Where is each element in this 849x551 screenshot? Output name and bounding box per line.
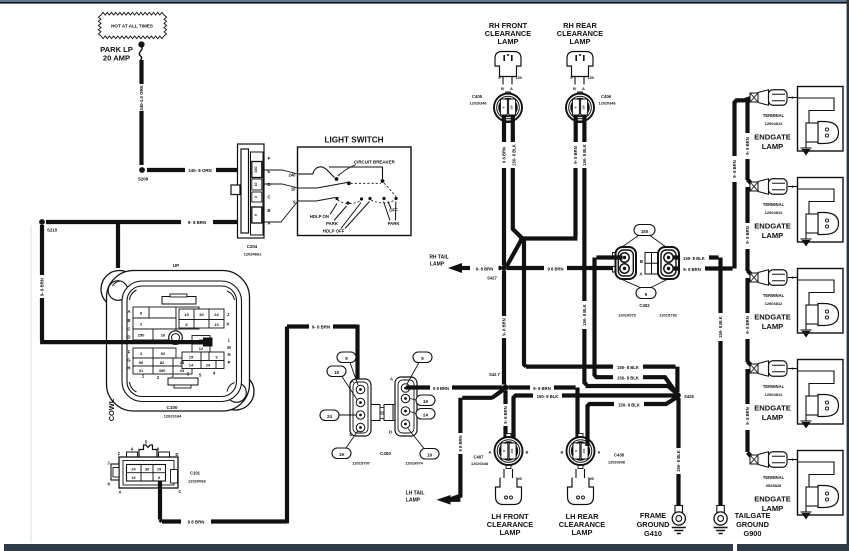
svg-text:30: 30 [199, 312, 204, 317]
svg-text:N: N [227, 352, 230, 357]
wire branch down to C100 [116, 224, 120, 268]
callout 19 [332, 448, 351, 459]
lamp bulb C438 (LH rear) [568, 478, 594, 505]
svg-text:S42 7: S42 7 [489, 372, 501, 377]
svg-text:ENDGATE: ENDGATE [754, 222, 791, 231]
wire to C438 [554, 388, 578, 447]
callout 24 [320, 410, 339, 421]
endgate lamp box 5 [798, 451, 844, 516]
endgate lamp 2 ground [805, 233, 807, 239]
C400 right pins A B C D [401, 384, 410, 429]
terminal 3 spade [750, 270, 787, 286]
svg-text:9: 9 [254, 214, 258, 216]
svg-text:B: B [501, 86, 504, 91]
svg-text:18: 18 [334, 370, 339, 375]
endgate lamp box 2 [798, 178, 844, 243]
svg-text:150- 8 BLK: 150- 8 BLK [582, 144, 587, 166]
wire stub to terminal [748, 362, 754, 369]
svg-text:LAMP: LAMP [572, 528, 593, 537]
wire [503, 426, 507, 446]
connector C400 left half [350, 379, 393, 436]
svg-text:12020066: 12020066 [188, 479, 207, 484]
svg-text:C402: C402 [639, 303, 650, 308]
svg-text:150- 8 BLK: 150- 8 BLK [617, 375, 639, 380]
svg-text:24: 24 [327, 414, 332, 419]
svg-text:D: D [176, 452, 179, 457]
svg-text:150: 150 [641, 229, 649, 234]
svg-text:150- 8 BLK: 150- 8 BLK [617, 365, 639, 370]
callout 19 right [416, 395, 435, 406]
svg-text:14: 14 [189, 363, 194, 368]
svg-text:C405: C405 [472, 94, 483, 99]
svg-text:LH TAIL: LH TAIL [406, 491, 425, 497]
svg-text:0525828: 0525828 [766, 483, 782, 488]
svg-text:9: 9 [792, 185, 794, 189]
terminal 2 spade [750, 179, 787, 195]
svg-text:31: 31 [139, 368, 144, 373]
svg-text:A: A [127, 309, 130, 314]
fuse element [139, 42, 144, 60]
svg-text:9: 9 [792, 96, 794, 100]
terminal 1 wire to lamp box [788, 97, 798, 99]
svg-text:LAMP: LAMP [762, 504, 784, 513]
svg-text:15: 15 [189, 355, 194, 360]
svg-text:82: 82 [160, 360, 165, 365]
svg-text:9 8 BRN: 9 8 BRN [547, 266, 563, 271]
lamp bulb C406 (RH rear) [567, 52, 593, 77]
right border line [847, 0, 849, 551]
svg-text:TERMINAL: TERMINAL [763, 293, 785, 298]
svg-text:9: 9 [570, 76, 572, 80]
svg-text:12034661: 12034661 [244, 252, 263, 257]
wire branch 5 to S425 [644, 398, 677, 405]
svg-text:29: 29 [206, 363, 211, 368]
callout 9 [337, 352, 356, 363]
wire S208 to C204 pin E [147, 168, 185, 172]
C100 corner arc details [130, 290, 235, 392]
svg-text:F: F [268, 156, 271, 161]
svg-text:A: A [582, 86, 585, 91]
C100 top slot [162, 297, 196, 305]
endgate lamp 3 bulb [806, 304, 839, 326]
lamp leads [503, 77, 512, 85]
svg-text:9: 9 [792, 458, 794, 462]
svg-text:2: 2 [254, 196, 258, 198]
C100 grid upper-left [133, 307, 199, 340]
wire RH front BRN down [502, 116, 506, 143]
C402 middle block [645, 253, 658, 275]
wire S427 down [502, 271, 506, 316]
svg-text:C400: C400 [380, 451, 391, 456]
connector C400 right half [389, 377, 417, 436]
TAILGATE GROUND G900 label [735, 511, 771, 538]
C101 pin letters [107, 440, 181, 495]
terminal 5 spade [750, 452, 787, 468]
connector circle C406 (RH rear) [566, 92, 594, 123]
svg-text:12015792: 12015792 [659, 313, 678, 318]
connector circle C407 (LH front) [495, 434, 523, 469]
wire S210 down [40, 225, 44, 275]
svg-text:C407: C407 [473, 455, 484, 460]
terminal 3 wire to lamp box [788, 277, 798, 279]
switch label leaders [330, 202, 396, 229]
wire branch 4 to S425 [562, 393, 675, 397]
svg-text:A: A [119, 490, 122, 495]
endgate lamp 2 bulb [806, 213, 839, 235]
svg-text:12020348: 12020348 [599, 102, 616, 106]
svg-text:9- 8 BRN: 9- 8 BRN [745, 226, 750, 243]
svg-text:LAMP: LAMP [498, 37, 519, 46]
svg-text:24: 24 [214, 312, 219, 317]
wire RH front BLK down [511, 116, 515, 143]
svg-text:TERMINAL: TERMINAL [763, 384, 785, 389]
svg-text:L: L [228, 338, 231, 343]
wire bottom run right [211, 327, 309, 524]
tailgate ground G900 eyelet [714, 506, 727, 526]
wire stub to terminal [748, 453, 754, 460]
svg-text:K: K [108, 482, 111, 487]
svg-text:9: 9 [792, 367, 794, 371]
wire BLK jog [513, 168, 526, 367]
callout 150 [634, 225, 655, 236]
wire 240 ORN fuse down [139, 60, 143, 84]
wire terminal square in C100 [203, 338, 213, 347]
svg-text:PARK: PARK [326, 221, 339, 226]
callout 9 right [413, 352, 432, 363]
svg-text:CIRCUIT BREAKER: CIRCUIT BREAKER [354, 160, 396, 165]
RH FRONT CLEARANCE LAMP title [485, 21, 531, 46]
terminal 5 wire to lamp box [788, 459, 798, 461]
svg-text:12020348: 12020348 [470, 102, 487, 106]
svg-text:S210: S210 [47, 228, 58, 233]
wire [216, 168, 250, 172]
svg-text:G410: G410 [644, 529, 662, 538]
LH REAR CLEARANCE LAMP title [559, 512, 605, 537]
C100 cell numbers [138, 311, 220, 374]
LH tail lamp arrow [437, 495, 451, 505]
wire [139, 111, 143, 165]
svg-text:240-1.0 ORN: 240-1.0 ORN [139, 85, 144, 110]
C100 grid upper-right [179, 309, 224, 328]
svg-text:12020164: 12020164 [164, 414, 183, 419]
svg-text:C101: C101 [190, 471, 201, 476]
svg-text:9- 8 BRN: 9- 8 BRN [745, 407, 750, 424]
svg-text:10: 10 [254, 183, 258, 187]
svg-text:ENDGATE: ENDGATE [754, 404, 791, 413]
endgate lamp box 3 [798, 269, 844, 334]
C100 bottom slot [168, 378, 198, 385]
svg-text:12020348: 12020348 [471, 462, 488, 466]
svg-text:92: 92 [161, 351, 166, 356]
endgate lamp 3 internal wiring [798, 280, 835, 305]
svg-text:9 8 BRN: 9 8 BRN [502, 147, 507, 163]
node S427 lower [503, 385, 509, 391]
connector circle C438 (LH rear) [567, 434, 595, 469]
svg-text:12004812: 12004812 [765, 121, 784, 126]
svg-text:9- 8 BRN: 9- 8 BRN [503, 406, 508, 423]
svg-text:150: 150 [582, 448, 586, 453]
endgate lamp 1 internal wiring [798, 98, 835, 123]
wire S427 lower to LH tail [449, 390, 504, 500]
node S427 upper [501, 265, 507, 271]
svg-text:9- 8 BRN: 9- 8 BRN [745, 137, 750, 154]
svg-text:LAMP: LAMP [406, 498, 421, 504]
wire C400 pin A to S427 lower [406, 385, 430, 389]
svg-text:G900: G900 [743, 529, 761, 538]
svg-text:9 8 BRN: 9 8 BRN [433, 386, 449, 391]
FRAME GROUND G410 label [637, 511, 671, 538]
endgate lamp 1 ground [805, 142, 807, 148]
wire [452, 385, 503, 389]
light switch box [298, 147, 412, 236]
svg-text:23: 23 [180, 360, 185, 365]
wire C407 BLK up and right (S425 branch 4) [514, 396, 534, 447]
svg-text:9- 8 BRN: 9- 8 BRN [683, 267, 700, 272]
svg-text:150: 150 [516, 76, 522, 80]
svg-text:9- 8 BRN: 9- 8 BRN [745, 316, 750, 333]
wire S210 to C204 pin A [46, 220, 181, 224]
svg-text:ENDGATE: ENDGATE [754, 313, 791, 322]
C204 pin letters F E D C B A [267, 156, 271, 226]
svg-text:LIGHT SWITCH: LIGHT SWITCH [324, 136, 383, 145]
svg-text:9- 8 BRN: 9- 8 BRN [502, 318, 507, 335]
svg-text:33: 33 [180, 368, 185, 373]
svg-text:COWL: COWL [107, 398, 116, 421]
svg-text:FRAME: FRAME [640, 511, 666, 520]
svg-text:HOT AT ALL TIMES: HOT AT ALL TIMES [111, 24, 153, 29]
circuit breaker leader [338, 165, 356, 177]
svg-text:TERMINAL: TERMINAL [763, 475, 785, 480]
wire C402 right BLK [674, 255, 680, 259]
C100 grid lower-left [133, 348, 192, 374]
bulkhead connector C100 [101, 271, 254, 412]
svg-text:J: J [107, 461, 109, 466]
svg-text:12015797: 12015797 [352, 461, 371, 466]
svg-text:12004812: 12004812 [765, 210, 784, 215]
wire to C400 pin A [333, 325, 358, 386]
wire S210 down into C100 [40, 298, 204, 342]
svg-text:A: A [390, 377, 393, 382]
top border bar [0, 0, 849, 2]
LH FRONT CLEARANCE LAMP title [487, 512, 533, 537]
bottom border bar right [737, 544, 849, 551]
ground symbol G410 [672, 528, 686, 534]
svg-text:LAMP: LAMP [762, 322, 784, 331]
wire S427 lower down to C407 [503, 391, 507, 405]
svg-text:LAMP: LAMP [762, 142, 784, 151]
node S425 [674, 392, 681, 399]
svg-text:HDLP OFF: HDLP OFF [323, 229, 345, 234]
svg-text:250: 250 [138, 333, 145, 338]
svg-text:ENDGATE: ENDGATE [754, 495, 791, 504]
svg-text:B: B [561, 450, 564, 455]
callout 18 [327, 366, 346, 377]
svg-text:150: 150 [510, 448, 514, 453]
svg-text:C406: C406 [601, 94, 612, 99]
endgate lamp 5 bulb [806, 486, 839, 508]
svg-text:9- 8 BRN: 9- 8 BRN [40, 278, 45, 296]
svg-text:10: 10 [214, 322, 219, 327]
svg-text:150- 8 BLK: 150- 8 BLK [683, 256, 705, 261]
RH REAR CLEARANCE LAMP title [557, 21, 603, 46]
lamp bulb C407 (LH front) [496, 478, 522, 505]
svg-text:A: A [489, 450, 492, 455]
svg-text:9 8 BRN: 9 8 BRN [458, 435, 463, 451]
wire C101 pin 9 down [160, 481, 181, 522]
svg-text:9- 8 BRN: 9- 8 BRN [573, 146, 578, 163]
svg-text:LAMP: LAMP [762, 413, 784, 422]
svg-text:S425: S425 [684, 394, 694, 399]
svg-text:150- 8 BLK: 150- 8 BLK [676, 450, 681, 472]
svg-text:150- 8 BLK: 150- 8 BLK [718, 316, 723, 338]
wire [643, 367, 677, 392]
svg-text:9: 9 [498, 76, 500, 80]
wire trunk up to terminal 1 [735, 98, 753, 156]
endgate lamp 3 ground [805, 324, 807, 330]
svg-text:B: B [573, 86, 576, 91]
svg-text:30: 30 [145, 467, 149, 472]
svg-text:UP: UP [173, 263, 179, 268]
node S210 [39, 219, 45, 225]
svg-text:A: A [598, 450, 601, 455]
wire stub to terminal [748, 180, 754, 187]
wire S427 right to C402 [507, 266, 544, 270]
svg-text:B: B [526, 450, 529, 455]
frame ground G410 eyelet [672, 506, 685, 526]
callout 24 right [416, 409, 435, 420]
bottom border bar left [4, 544, 733, 551]
svg-text:150: 150 [588, 76, 594, 80]
svg-text:K: K [226, 322, 229, 327]
svg-text:20 AMP: 20 AMP [103, 54, 130, 63]
faint scan line [31, 225, 32, 543]
svg-text:C: C [127, 327, 130, 332]
lamp leads [576, 469, 585, 478]
svg-text:240- 8 ORN: 240- 8 ORN [188, 168, 211, 173]
node S208 [139, 167, 145, 173]
svg-text:H: H [127, 366, 130, 371]
svg-text:10: 10 [291, 187, 296, 192]
endgate lamp 5 ground [805, 506, 807, 512]
wire C402 pin B left down (S425 branch 2) [595, 258, 623, 378]
connector C204 [231, 144, 264, 238]
wire to tailgate ground trunk [709, 258, 721, 314]
endgate lamp 1 bulb [806, 122, 839, 144]
wire branch 2 to S425 [643, 377, 676, 392]
svg-text:TERMINAL: TERMINAL [763, 113, 785, 118]
svg-text:C100: C100 [167, 405, 178, 410]
wire BLK to S425 branch 1 [526, 365, 613, 369]
svg-text:M: M [227, 345, 231, 350]
svg-text:S: S [199, 373, 202, 378]
C100 pin letters [127, 309, 231, 380]
switch contacts [335, 177, 398, 204]
svg-text:150- 8 BLK: 150- 8 BLK [537, 394, 559, 399]
svg-text:19: 19 [423, 399, 428, 404]
svg-text:150: 150 [510, 105, 514, 110]
svg-text:9- 8 BRN: 9- 8 BRN [188, 220, 206, 225]
svg-text:TERMINAL: TERMINAL [763, 202, 785, 207]
svg-text:12: 12 [199, 346, 204, 351]
wire C402 right BRN [674, 266, 680, 270]
svg-text:C438: C438 [614, 453, 625, 458]
svg-text:12004812: 12004812 [765, 301, 784, 306]
svg-text:D: D [127, 335, 130, 340]
svg-text:96: 96 [139, 360, 144, 365]
svg-text:150: 150 [582, 105, 586, 110]
terminal 2 wire to lamp box [788, 186, 798, 188]
wire into node [499, 266, 502, 270]
lamp leads [504, 469, 513, 478]
terminal 4 spade [750, 361, 787, 377]
svg-text:150- 8 BLK: 150- 8 BLK [582, 304, 587, 326]
svg-text:19: 19 [184, 312, 189, 317]
svg-text:490: 490 [159, 368, 166, 373]
svg-text:C: C [179, 489, 182, 494]
wire RH rear BLK down [582, 116, 586, 143]
svg-text:PARK: PARK [388, 221, 401, 226]
fuse box HOT AT ALL TIMES [98, 12, 166, 38]
RH tail lamp arrow [448, 263, 462, 273]
svg-text:S427: S427 [487, 276, 497, 281]
svg-text:D: D [350, 432, 353, 437]
wire [676, 474, 680, 507]
connector C101 [111, 445, 178, 488]
switch internal wiring [298, 167, 383, 201]
wire BLK down to S425 branch 3 [582, 168, 586, 301]
svg-text:LAMP: LAMP [570, 37, 591, 46]
svg-text:B: B [127, 318, 130, 323]
svg-text:HDLP ON: HDLP ON [310, 214, 329, 219]
wire C438 BLK up right (S425 branch 5) [588, 404, 615, 446]
svg-text:A: A [510, 86, 513, 91]
svg-text:A: A [351, 379, 354, 384]
svg-text:9- 8 BRN: 9- 8 BRN [312, 325, 330, 330]
svg-text:G: G [127, 358, 130, 363]
C101 cell numbers [131, 467, 162, 480]
svg-text:9: 9 [792, 276, 794, 280]
endgate lamp 4 internal wiring [798, 371, 835, 396]
terminal 4 wire to lamp box [788, 368, 798, 370]
lamp leads [575, 77, 584, 85]
svg-text:240: 240 [289, 173, 297, 178]
wire BRN left to S427 [507, 168, 578, 267]
svg-text:240: 240 [254, 167, 258, 173]
callout 9 [636, 288, 656, 299]
svg-text:S208: S208 [138, 177, 149, 182]
endgate lamp 5 internal wiring [798, 462, 835, 487]
svg-text:150- 8 BLK: 150- 8 BLK [618, 402, 640, 407]
wire [213, 220, 250, 224]
callout 19 right lower [420, 449, 439, 460]
endgate lamp box 4 [798, 360, 844, 425]
C400 left pins A B C D [356, 385, 365, 432]
svg-text:D: D [389, 430, 392, 435]
endgate lamp 2 internal wiring [798, 189, 835, 214]
wire BRN to S427 [502, 168, 506, 265]
svg-text:GROUND: GROUND [736, 520, 770, 529]
endgate lamp box 1 [798, 87, 844, 152]
wire S425 down to G410 [676, 398, 680, 448]
connector circle C405 (RH front) [494, 92, 522, 123]
svg-text:B: B [640, 259, 643, 264]
C100 grid lower-right [182, 336, 224, 369]
wire [502, 338, 506, 385]
svg-text:P: P [228, 360, 231, 365]
svg-text:12020348: 12020348 [608, 461, 625, 465]
svg-text:F: F [128, 350, 131, 355]
connector C402 right half [658, 247, 679, 279]
